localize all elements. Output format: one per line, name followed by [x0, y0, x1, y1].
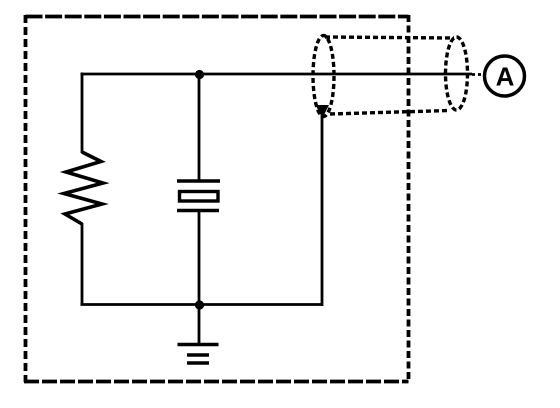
- wire: bottom horizontal: [81, 303, 323, 306]
- shield enclosure dashed box: left edge: [24, 15, 28, 382]
- wire: short dotted lead into ammeter: [472, 73, 484, 76]
- shield enclosure dashed box: right edge: [407, 15, 411, 382]
- wire: top horizontal from resistor branch to ammeter: [81, 73, 473, 76]
- resistor (zigzag): [64, 152, 103, 224]
- junction node: coax shield tap (triangle blob): [316, 105, 330, 118]
- wire: left branch upper segment: [81, 73, 84, 154]
- coax shield cylinder: bottom dashed line: [330, 111, 449, 115]
- wire: left branch lower segment: [81, 223, 84, 306]
- junction node: bottom wire / ground: [195, 300, 204, 309]
- svg-text:A: A: [496, 62, 515, 92]
- shield enclosure dashed box: top edge: [26, 15, 409, 19]
- ground symbol bar 1: [178, 343, 219, 347]
- coax shield cylinder: top dashed line: [325, 37, 454, 38]
- crystal body rectangle: [180, 192, 219, 202]
- ground stem wire: [198, 305, 201, 343]
- ground symbol bar 3: [187, 361, 209, 365]
- crystal bottom plate: [177, 209, 219, 212]
- junction node: top wire / crystal branch: [195, 70, 204, 79]
- wire: crystal branch lower segment: [198, 212, 201, 305]
- coax shield cylinder: left ellipse: [313, 36, 334, 117]
- crystal top plate: [177, 179, 220, 182]
- ammeter A: circle: [485, 56, 525, 96]
- wire: crystal branch upper segment: [198, 74, 201, 180]
- ground symbol bar 2: [187, 353, 209, 357]
- shield enclosure dashed box: bottom edge: [24, 380, 409, 384]
- coax shield cylinder: right ellipse: [446, 37, 468, 110]
- wire: right branch vertical (coax shield to bottom): [321, 113, 324, 306]
